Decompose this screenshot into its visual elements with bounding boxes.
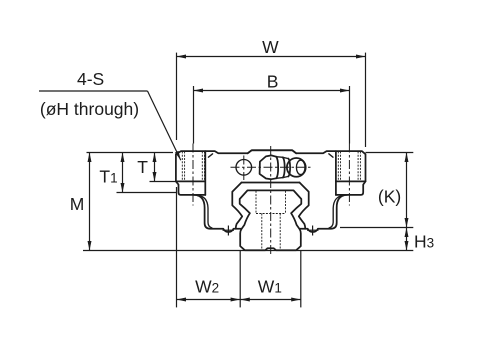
seal plate inner edge right bbox=[329, 196, 344, 228]
left nub centerlines bbox=[227, 226, 229, 236]
dimension K top extension line bbox=[366, 152, 414, 154]
right nub centerlines bbox=[312, 226, 314, 236]
dimension B extension line left bbox=[193, 86, 195, 144]
dimension W1 extension line right bbox=[300, 251, 302, 308]
grease nipple centerline bbox=[231, 166, 311, 168]
left mounting hole hidden lines bbox=[182, 151, 204, 181]
dimension T1 line bbox=[122, 153, 124, 193]
dimension B line bbox=[194, 90, 350, 92]
dimension M top extension line bbox=[87, 152, 174, 154]
dimension H3 line bbox=[406, 228, 408, 251]
end seal contour right bbox=[299, 183, 309, 229]
svg-text:W: W bbox=[262, 37, 279, 57]
rail bolt hole hidden lines bbox=[262, 214, 280, 251]
right end plate corner chamfer bbox=[329, 154, 333, 157]
right mounting hole centerline bbox=[348, 144, 350, 206]
rail cross-section bbox=[240, 190, 302, 250]
svg-text:4-S: 4-S bbox=[77, 69, 104, 89]
dimension T extension line bbox=[150, 181, 176, 183]
svg-text:W1: W1 bbox=[258, 276, 282, 296]
rail centerline bbox=[270, 146, 272, 257]
side plug hole bbox=[236, 160, 252, 176]
dimension W2 extension line left bbox=[176, 187, 178, 307]
grease nipple ribs bbox=[276, 157, 290, 179]
linear guide block outer profile bbox=[176, 150, 366, 232]
grease nipple ball tip bbox=[296, 160, 305, 174]
seal plate inner edge left bbox=[198, 196, 213, 228]
left end plate corner chamfer bbox=[208, 154, 212, 157]
dimension M line bbox=[89, 153, 91, 251]
dimension W line bbox=[177, 56, 366, 58]
right ear bottom edge bbox=[336, 180, 366, 182]
left ear bottom edge bbox=[176, 180, 205, 182]
dimension W extension line right bbox=[365, 53, 367, 147]
leader diagonal with arrow bbox=[148, 91, 181, 160]
leader underline for 4-S bbox=[39, 90, 148, 92]
end seal contour left bbox=[232, 183, 242, 229]
side plug hole centerline bbox=[243, 156, 245, 181]
svg-text:T: T bbox=[137, 157, 148, 177]
grease nipple rib edges bbox=[276, 157, 288, 179]
rail bolt counterbore hidden lines bbox=[256, 191, 286, 214]
dimension T line bbox=[154, 153, 156, 182]
svg-text:(øH through): (øH through) bbox=[40, 99, 139, 119]
mounting surface baseline bbox=[83, 250, 413, 252]
svg-text:B: B bbox=[267, 72, 279, 92]
svg-text:(K): (K) bbox=[378, 187, 401, 207]
dimension W extension line left bbox=[176, 53, 178, 140]
dimension W1 extension line left bbox=[239, 251, 241, 308]
grease nipple head bbox=[287, 158, 306, 177]
right mounting hole hidden lines bbox=[338, 151, 360, 181]
svg-text:W2: W2 bbox=[195, 276, 219, 296]
dimension H3 extension line bbox=[340, 227, 413, 229]
dimension W2 line bbox=[177, 299, 241, 301]
svg-text:H3: H3 bbox=[414, 231, 434, 251]
left mounting hole centerline bbox=[192, 144, 194, 206]
right ear inner edge bbox=[335, 151, 337, 195]
dimension K line bbox=[406, 153, 408, 228]
right notch floor extension bbox=[336, 194, 347, 196]
dimension T1 extension line bbox=[117, 192, 177, 194]
top plate bbox=[248, 150, 297, 153]
grease nipple hex body bbox=[260, 155, 277, 179]
dimension B extension line right bbox=[349, 86, 351, 144]
svg-text:M: M bbox=[70, 194, 85, 214]
dimension W1 line bbox=[240, 299, 301, 301]
svg-text:T1: T1 bbox=[99, 166, 117, 186]
end seal top edge bbox=[242, 182, 300, 184]
left notch floor extension bbox=[194, 194, 205, 196]
left ear inner edge bbox=[204, 151, 206, 195]
